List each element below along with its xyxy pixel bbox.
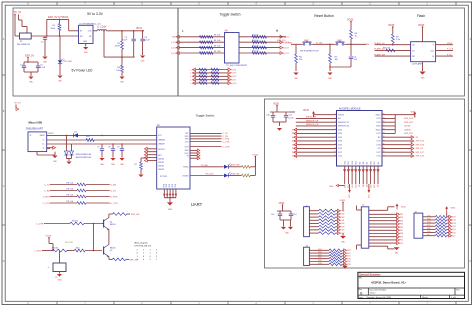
- svg-text:<ESP32_Demo Board_V1>: <ESP32_Demo Board_V1>: [371, 281, 407, 285]
- svg-text:R21 10K: R21 10K: [65, 242, 73, 244]
- svg-text:0_IO4: 0_IO4: [171, 42, 177, 44]
- svg-text:IO32: IO32: [338, 137, 342, 139]
- svg-text:Saturday, January 04, 2020: Saturday, January 04, 2020: [367, 296, 392, 299]
- svg-text:IO17: IO17: [377, 152, 381, 154]
- svg-text:35: 35: [383, 125, 385, 127]
- svg-text:L: L: [182, 29, 184, 33]
- svg-text:U_RTS: U_RTS: [110, 196, 118, 198]
- svg-text:IO18: IO18: [347, 264, 351, 266]
- svg-text:IO21: IO21: [377, 133, 381, 135]
- svg-text:IO5: IO5: [378, 148, 381, 150]
- svg-text:IO11: IO11: [427, 228, 430, 230]
- svg-text:SENSOR_VP: SENSOR_VP: [338, 122, 350, 124]
- svg-text:IO2: IO2: [359, 162, 361, 165]
- svg-text:10uF: 10uF: [122, 40, 127, 42]
- svg-text:ESD05V88D1-B3: ESD05V88D1-B3: [76, 157, 92, 159]
- svg-text:ESP_IO21: ESP_IO21: [404, 133, 413, 135]
- svg-text:IO12: IO12: [369, 194, 371, 198]
- svg-text:C_TX: C_TX: [223, 133, 229, 135]
- svg-text:VD33: VD33: [401, 207, 406, 209]
- svg-text:IO31: IO31: [341, 220, 345, 222]
- svg-text:D: D: [470, 260, 472, 263]
- svg-text:DTR RTS--EN IO0: DTR RTS--EN IO0: [135, 245, 152, 247]
- svg-text:IO32: IO32: [292, 137, 296, 139]
- svg-text:L_IO2: L_IO2: [190, 76, 195, 78]
- svg-text:0_IO2: 0_IO2: [171, 53, 177, 55]
- svg-text:SW PUSHBUTTON: SW PUSHBUTTON: [300, 50, 319, 52]
- svg-text:R8 10k: R8 10k: [72, 221, 78, 223]
- svg-text:ESP_IO17: ESP_IO17: [416, 152, 424, 154]
- svg-text:P06: P06: [400, 227, 403, 229]
- svg-text:0.1uF: 0.1uF: [289, 117, 295, 119]
- svg-text:6: 6: [335, 132, 336, 134]
- svg-text:ESP_EN: ESP_EN: [131, 214, 140, 216]
- svg-text:VD33: VD33: [253, 154, 259, 156]
- svg-text:H_IO1: H_IO1: [231, 80, 236, 82]
- svg-text:VD33: VD33: [411, 111, 416, 113]
- svg-text:L_IO0: L_IO0: [190, 83, 195, 85]
- svg-text:D: D: [3, 260, 5, 263]
- svg-text:ESP_IO23: ESP_IO23: [404, 118, 413, 120]
- svg-text:H_IO2: H_IO2: [283, 47, 290, 49]
- svg-text:IO5: IO5: [378, 184, 380, 187]
- svg-text:3: 3: [335, 121, 336, 123]
- svg-text:IO22: IO22: [318, 252, 322, 254]
- svg-text:S8050: S8050: [110, 224, 117, 226]
- svg-text:3V3OUT: 3V3OUT: [158, 149, 166, 151]
- svg-text:SK 1.0k: SK 1.0k: [252, 40, 259, 42]
- svg-text:10: 10: [334, 147, 336, 149]
- svg-text:IO22: IO22: [377, 122, 381, 124]
- svg-text:L1 2.2uH: L1 2.2uH: [97, 27, 107, 29]
- svg-text:IO12: IO12: [452, 226, 456, 228]
- svg-text:IO9: IO9: [427, 234, 430, 236]
- svg-text:IO23: IO23: [377, 118, 381, 120]
- svg-text:ESP_IO5: ESP_IO5: [416, 148, 423, 150]
- svg-text:IO18: IO18: [377, 144, 381, 146]
- svg-text:IO2: IO2: [359, 184, 361, 187]
- svg-text:ESP32_EN: ESP32_EN: [306, 117, 317, 119]
- svg-text:11: 11: [334, 151, 336, 153]
- svg-text:GND: GND: [329, 186, 334, 188]
- svg-text:C_RTS: C_RTS: [34, 250, 42, 252]
- svg-text:IO33: IO33: [338, 141, 342, 143]
- svg-text:FHC 3k3: FHC 3k3: [383, 48, 390, 50]
- svg-text:P11: P11: [400, 243, 403, 245]
- svg-text:IO27: IO27: [338, 152, 342, 154]
- svg-text:U0TXD: U0TXD: [404, 126, 411, 128]
- svg-text:0_IO3: 0_IO3: [171, 48, 177, 50]
- svg-text:5: 5: [335, 129, 336, 131]
- svg-text:IO10: IO10: [427, 231, 431, 233]
- svg-text:33: 33: [383, 132, 385, 134]
- svg-text:IO15: IO15: [452, 217, 456, 219]
- svg-text:IO25: IO25: [338, 144, 342, 146]
- svg-text:IO33: IO33: [292, 141, 296, 143]
- svg-text:IO15: IO15: [427, 215, 431, 217]
- svg-text:IO26: IO26: [338, 148, 342, 150]
- svg-text:Auto program: Auto program: [135, 242, 148, 245]
- svg-text:SENSOR_VN: SENSOR_VN: [338, 126, 350, 128]
- svg-text:VBUS: VBUS: [40, 135, 46, 137]
- svg-text:H_IO3: H_IO3: [231, 73, 236, 75]
- svg-text:10K: 10K: [116, 70, 120, 72]
- svg-text:IO26: IO26: [292, 148, 296, 150]
- svg-text:TX_LED: TX_LED: [201, 165, 209, 167]
- svg-text:IO0: IO0: [363, 184, 365, 187]
- svg-text:IO20: IO20: [318, 257, 322, 259]
- svg-text:34: 34: [383, 129, 385, 131]
- svg-text:CBUS1: CBUS1: [158, 162, 164, 164]
- svg-text:IO20: IO20: [347, 258, 351, 260]
- svg-text:CBUS2: CBUS2: [158, 165, 164, 167]
- svg-text:RX_LED: RX_LED: [206, 174, 214, 176]
- svg-text:F_CLK: F_CLK: [447, 49, 454, 51]
- svg-text:IO4: IO4: [367, 162, 369, 165]
- svg-text:GND: GND: [168, 209, 173, 211]
- svg-text:ESP_IO16: ESP_IO16: [416, 156, 424, 158]
- svg-text:U1 SPX3819M5-L-3-3: U1 SPX3819M5-L-3-3: [79, 23, 101, 25]
- svg-text:Rev: Rev: [456, 290, 459, 292]
- svg-text:VD33: VD33: [136, 28, 142, 30]
- svg-text:H_IO1: H_IO1: [283, 53, 290, 55]
- svg-text:VD33: VD33: [451, 207, 456, 209]
- svg-text:FT231X: FT231X: [160, 176, 168, 178]
- svg-text:IO19: IO19: [318, 260, 322, 262]
- svg-text:C: C: [3, 185, 5, 188]
- svg-text:4: 4: [335, 125, 336, 127]
- svg-text:IO14: IO14: [338, 156, 342, 158]
- svg-text:TP_5V: TP_5V: [14, 103, 21, 105]
- svg-text:32: 32: [383, 136, 385, 138]
- svg-text:5V Power LED: 5V Power LED: [72, 69, 94, 73]
- svg-text:C_RTS: C_RTS: [43, 196, 51, 198]
- svg-text:J1: J1: [30, 135, 32, 137]
- svg-text:IO13: IO13: [427, 222, 431, 224]
- svg-text:U_CTS: U_CTS: [110, 203, 118, 205]
- svg-text:FLASH_WP: FLASH_WP: [374, 53, 385, 56]
- svg-text:36: 36: [383, 121, 385, 123]
- svg-text:7: 7: [335, 136, 336, 138]
- svg-text:IO18: IO18: [318, 263, 322, 265]
- svg-text:EN: EN: [366, 44, 369, 46]
- svg-text:IO15: IO15: [356, 161, 358, 165]
- svg-text:ESP_IO0: ESP_IO0: [130, 259, 140, 261]
- svg-text:P04: P04: [400, 220, 403, 222]
- svg-text:C_RX: C_RX: [44, 190, 50, 192]
- svg-text:IO12: IO12: [348, 161, 350, 165]
- svg-text:R10: R10: [76, 248, 79, 250]
- svg-text:29: 29: [383, 147, 385, 149]
- svg-text:CBUS0: CBUS0: [158, 158, 164, 160]
- svg-text:SK 1.0k: SK 1.0k: [214, 40, 221, 42]
- svg-text:SK 1.0k: SK 1.0k: [214, 51, 221, 53]
- svg-text:VBUS: VBUS: [48, 133, 54, 135]
- svg-text:IO21: IO21: [318, 254, 322, 256]
- svg-text:VDD33: VDD33: [338, 114, 344, 116]
- svg-text:IO13: IO13: [345, 161, 347, 165]
- svg-text:TXLED: TXLED: [183, 167, 189, 169]
- svg-text:IO13: IO13: [452, 223, 456, 225]
- svg-text:RS 1.0k: RS 1.0k: [67, 189, 74, 191]
- svg-text:UART: UART: [191, 202, 203, 207]
- svg-text:31: 31: [383, 140, 385, 142]
- svg-text:P02: P02: [400, 214, 403, 216]
- svg-text:IO23: IO23: [318, 249, 322, 251]
- svg-text:F_DI: F_DI: [447, 54, 452, 56]
- svg-text:<Doc>: <Doc>: [370, 292, 377, 295]
- svg-text:ESD05V88D1-B3: ESD05V88D1-B3: [76, 154, 92, 156]
- svg-text:VD33: VD33: [273, 102, 280, 105]
- svg-text:IO16: IO16: [377, 156, 381, 158]
- svg-text:Micro USB: Micro USB: [29, 121, 43, 125]
- svg-text:IO21: IO21: [347, 256, 351, 258]
- svg-text:U_TX: U_TX: [110, 190, 116, 192]
- svg-text:C12: C12: [271, 214, 274, 216]
- svg-text:C_RX: C_RX: [223, 136, 229, 138]
- svg-text:VCC: VCC: [158, 135, 163, 137]
- svg-text:CBUS3: CBUS3: [158, 169, 164, 171]
- svg-text:VD33: VD33: [418, 24, 425, 27]
- svg-text:D2 LED: D2 LED: [65, 61, 73, 63]
- svg-text:USBDP: USBDP: [158, 144, 165, 146]
- svg-text:SK 1.0k: SK 1.0k: [214, 45, 221, 47]
- svg-text:IO15: IO15: [356, 184, 358, 188]
- svg-text:VD33: VD33: [303, 110, 309, 112]
- svg-text:37: 37: [383, 117, 385, 119]
- svg-text:IO35: IO35: [292, 133, 296, 135]
- svg-text:R_TGL: R_TGL: [316, 42, 324, 44]
- svg-text:RXLED: RXLED: [183, 175, 190, 177]
- svg-text:Document Number: Document Number: [370, 289, 387, 292]
- svg-text:RS 1.0k: RS 1.0k: [67, 183, 74, 185]
- svg-text:1: 1: [335, 114, 336, 116]
- svg-text:H_IO2: H_IO2: [231, 76, 236, 78]
- svg-text:R9 10k: R9 10k: [52, 248, 58, 250]
- svg-text:IO19: IO19: [377, 141, 381, 143]
- svg-text:H_IO0: H_IO0: [231, 83, 236, 85]
- svg-text:IO13: IO13: [344, 184, 346, 188]
- svg-text:C_DTR: C_DTR: [36, 223, 44, 225]
- svg-text:IO0: IO0: [363, 162, 365, 165]
- svg-text:IO34: IO34: [292, 129, 296, 131]
- svg-text:27: 27: [383, 155, 385, 157]
- svg-text:C13: C13: [293, 214, 296, 216]
- svg-text:IO22: IO22: [347, 253, 351, 255]
- svg-text:ESP_5V: ESP_5V: [25, 54, 34, 57]
- svg-text:VD33: VD33: [279, 203, 285, 205]
- svg-text:FLASH_CS: FLASH_CS: [374, 42, 385, 45]
- svg-text:IO17: IO17: [374, 161, 376, 165]
- svg-text:SK 1.0k: SK 1.0k: [214, 35, 221, 37]
- svg-text:U_RX: U_RX: [110, 184, 116, 186]
- svg-text:Title: Title: [359, 277, 362, 280]
- svg-text:IO32: IO32: [341, 217, 345, 219]
- svg-text:IO4: IO4: [367, 184, 369, 187]
- svg-text:IO16: IO16: [370, 161, 372, 165]
- svg-text:L_IO4: L_IO4: [190, 69, 195, 71]
- svg-text:IO33: IO33: [341, 214, 345, 216]
- svg-text:USBDM: USBDM: [158, 140, 165, 142]
- svg-text:IO27: IO27: [292, 152, 296, 154]
- svg-text:L_IO3: L_IO3: [190, 73, 195, 75]
- svg-text:IO16: IO16: [370, 184, 372, 188]
- svg-text:MF-USMF110: MF-USMF110: [17, 44, 31, 46]
- svg-text:Synced Systems: Synced Systems: [359, 272, 381, 276]
- svg-text:P07: P07: [400, 230, 403, 232]
- svg-text:38: 38: [383, 114, 385, 116]
- svg-text:8: 8: [335, 140, 336, 142]
- svg-text:IO35: IO35: [338, 133, 342, 135]
- svg-text:IO12: IO12: [349, 194, 351, 198]
- svg-text:U0RXD: U0RXD: [404, 129, 411, 131]
- svg-text:C_CTS: C_CTS: [223, 141, 230, 143]
- svg-text:IO5: IO5: [378, 162, 380, 165]
- svg-text:IO29: IO29: [341, 226, 345, 228]
- svg-text:IO23: IO23: [347, 250, 351, 252]
- svg-text:Sheet: Sheet: [422, 296, 428, 299]
- svg-text:ESP_IO19: ESP_IO19: [416, 141, 424, 143]
- svg-text:28: 28: [383, 151, 385, 153]
- svg-text:C_DTR: C_DTR: [223, 146, 230, 148]
- svg-text:IO11: IO11: [452, 229, 456, 231]
- svg-text:IO14: IO14: [427, 219, 431, 221]
- svg-text:SK 1.0k: SK 1.0k: [252, 35, 259, 37]
- svg-text:SENSOR_VN: SENSOR_VN: [306, 124, 319, 126]
- svg-text:A6 ESP32_MODULE: A6 ESP32_MODULE: [339, 107, 361, 110]
- svg-text:1 of 1: 1 of 1: [451, 297, 457, 299]
- svg-text:GND1: GND1: [376, 114, 381, 116]
- svg-text:IO34: IO34: [338, 129, 342, 131]
- svg-text:0.1uF: 0.1uF: [40, 67, 46, 69]
- svg-text:C_CTS: C_CTS: [43, 203, 51, 205]
- svg-text:12: 12: [334, 155, 336, 157]
- svg-text:Toggle Switch: Toggle Switch: [196, 114, 215, 118]
- svg-text:49.9K: 49.9K: [115, 46, 121, 48]
- svg-text:ESP_IO18: ESP_IO18: [416, 144, 424, 146]
- svg-text:TXD0: TXD0: [376, 126, 381, 128]
- svg-text:IO25: IO25: [292, 144, 296, 146]
- svg-text:C: C: [470, 185, 472, 188]
- svg-text:IO10: IO10: [452, 232, 456, 234]
- svg-text:IO30: IO30: [341, 223, 345, 225]
- svg-text:RS 1.0k: RS 1.0k: [67, 201, 74, 203]
- svg-text:DVBUSB-UART: DVBUSB-UART: [26, 127, 44, 130]
- svg-text:SK 1.0k: SK 1.0k: [252, 51, 259, 53]
- svg-text:IO28: IO28: [341, 230, 345, 232]
- svg-text:IO9: IO9: [452, 235, 455, 237]
- svg-text:2: 2: [335, 117, 336, 119]
- svg-text:P05: P05: [400, 224, 403, 226]
- svg-text:H_IO4: H_IO4: [231, 69, 236, 71]
- svg-text:ESP_IO22: ESP_IO22: [404, 122, 413, 124]
- svg-text:SENSOR_VP: SENSOR_VP: [306, 120, 319, 122]
- svg-text:TS_SW_PCM12SMTR: TS_SW_PCM12SMTR: [226, 65, 248, 67]
- svg-text:Flash: Flash: [417, 14, 425, 18]
- svg-text:IO19: IO19: [347, 261, 351, 263]
- svg-text:P03: P03: [400, 217, 403, 219]
- svg-text:VD33: VD33: [388, 24, 395, 27]
- svg-text:R7: R7: [135, 164, 137, 166]
- svg-text:GND: GND: [83, 41, 88, 43]
- svg-text:ESP_5V SYSBUS: ESP_5V SYSBUS: [48, 16, 69, 19]
- svg-text:Toggle Switch: Toggle Switch: [220, 12, 241, 16]
- svg-text:IO12: IO12: [427, 225, 431, 227]
- svg-text:IO17: IO17: [374, 184, 376, 188]
- svg-text:P10: P10: [400, 240, 403, 242]
- svg-text:RXD0: RXD0: [376, 129, 381, 131]
- svg-text:SK 1.0k: SK 1.0k: [252, 45, 259, 47]
- svg-text:IO27: IO27: [341, 233, 345, 235]
- svg-text:C_TX: C_TX: [44, 184, 50, 186]
- svg-text:RXD LED: RXD LED: [232, 165, 241, 167]
- svg-text:IO34: IO34: [341, 210, 345, 212]
- svg-text:P08: P08: [400, 233, 403, 235]
- svg-text:VD33: VD33: [447, 43, 453, 45]
- svg-text:IO14: IO14: [292, 156, 296, 158]
- svg-text:9: 9: [335, 144, 336, 146]
- svg-text:L_IO1: L_IO1: [190, 80, 195, 82]
- svg-text:Reset Button: Reset Button: [314, 14, 334, 18]
- svg-text:TXD LED: TXD LED: [232, 173, 241, 175]
- svg-text:RS 1.0k: RS 1.0k: [67, 195, 74, 197]
- svg-text:U2 FLASH: U2 FLASH: [412, 62, 422, 65]
- svg-text:P09: P09: [400, 236, 403, 238]
- svg-text:5V to 3.3V: 5V to 3.3V: [87, 12, 104, 16]
- svg-text:30: 30: [383, 144, 385, 146]
- svg-text:IO14: IO14: [452, 220, 456, 222]
- svg-text:C_RTS: C_RTS: [223, 139, 230, 141]
- svg-text:Date:: Date:: [359, 296, 364, 299]
- svg-text:0.1uF: 0.1uF: [145, 40, 151, 42]
- svg-text:D+: D+: [42, 144, 44, 146]
